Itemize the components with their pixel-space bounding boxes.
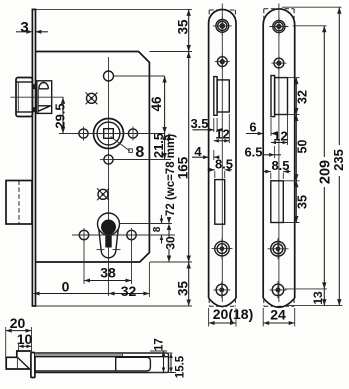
svg-text:165: 165 xyxy=(176,156,191,179)
middle plate centerline xyxy=(221,4,223,303)
right plate dashed square corners xyxy=(264,8,294,10)
deadbolt xyxy=(6,181,32,225)
middle faceplate outline xyxy=(209,10,236,299)
middle plate top screw xyxy=(216,20,229,33)
svg-text:13: 13 xyxy=(311,291,325,305)
dimension 32/50/35 stack xyxy=(288,77,300,79)
hole left of keyhole xyxy=(79,230,88,239)
svg-text:35: 35 xyxy=(176,281,191,297)
right plate deadbolt cutout xyxy=(271,181,284,223)
svg-text:35: 35 xyxy=(296,195,310,209)
svg-text:0: 0 xyxy=(62,279,70,295)
middle plate lower screw 1 xyxy=(215,241,230,256)
svg-text:20: 20 xyxy=(10,315,26,331)
dimension 29.5 xyxy=(62,97,64,133)
dimension 235 xyxy=(282,6,342,8)
svg-text:235: 235 xyxy=(331,149,346,171)
dimension 72 (wc=78 mm) xyxy=(168,134,170,137)
hole top xyxy=(104,71,114,81)
dimension 13 xyxy=(323,289,325,306)
dimension 209 xyxy=(293,25,327,27)
lock case body xyxy=(36,52,150,263)
right faceplate outline xyxy=(263,9,295,298)
latch bolt head xyxy=(16,78,32,117)
middle plate latch cutout xyxy=(214,77,217,116)
right plate top screw xyxy=(273,20,285,32)
wire extension lines xyxy=(36,8,193,10)
svg-text:12: 12 xyxy=(215,127,229,142)
right plate lower screw 1 xyxy=(271,242,286,257)
svg-text:32: 32 xyxy=(296,90,310,104)
screw symbol xyxy=(87,93,97,103)
svg-text:29.5: 29.5 xyxy=(52,103,67,128)
svg-text:24: 24 xyxy=(270,307,286,323)
dimension 17 (bottom view) xyxy=(150,350,167,352)
svg-text:10: 10 xyxy=(17,331,33,347)
svg-text:30: 30 xyxy=(163,236,177,250)
svg-text:20(18): 20(18) xyxy=(213,306,253,322)
right plate upper hole xyxy=(274,58,284,68)
svg-text:35: 35 xyxy=(175,19,190,35)
dimension 8 keyhole xyxy=(161,215,163,224)
svg-text:6: 6 xyxy=(249,120,256,135)
leader square 8 xyxy=(111,137,131,152)
dimension 30 xyxy=(167,224,171,231)
hole right of keyhole xyxy=(127,230,136,239)
svg-text:17: 17 xyxy=(154,338,166,351)
right plate centerline xyxy=(278,4,280,303)
faceplate bar (bottom view) xyxy=(31,353,35,378)
middle plate lower screw 2 xyxy=(216,284,227,295)
latch bolt tail xyxy=(37,81,52,114)
svg-text:8.5: 8.5 xyxy=(215,157,233,172)
latch shaft (bottom view) xyxy=(35,353,169,373)
svg-text:32: 32 xyxy=(121,283,137,299)
middle plate upper hole xyxy=(217,57,227,67)
right plate latch cutout xyxy=(271,76,275,117)
svg-text:50: 50 xyxy=(296,140,310,154)
svg-text:6.5: 6.5 xyxy=(244,145,262,160)
right plate lower screw 2 xyxy=(272,284,284,296)
svg-text:21.5: 21.5 xyxy=(151,133,166,158)
keyhole xyxy=(98,213,120,235)
middle plate deadbolt cutout xyxy=(215,180,225,225)
svg-text:3.5: 3.5 xyxy=(190,116,208,131)
svg-text:8: 8 xyxy=(135,144,144,161)
dimension 15.5 (bottom view) xyxy=(170,353,172,373)
middle plate dashed square corners xyxy=(209,9,235,11)
dimension 38 xyxy=(83,241,85,284)
hole below hub xyxy=(104,155,113,164)
dimension 0 / 32 xyxy=(148,262,150,297)
svg-text:38: 38 xyxy=(100,265,116,281)
latch bolt head (bottom view) xyxy=(6,351,31,369)
svg-text:15.5: 15.5 xyxy=(175,355,187,378)
svg-text:46: 46 xyxy=(149,96,164,112)
faceplate (side view) xyxy=(32,9,35,306)
hole right of hub xyxy=(128,129,137,138)
dimension line 35/165/35 xyxy=(188,9,190,306)
centerline xyxy=(108,57,110,296)
latch centerline xyxy=(10,96,63,98)
svg-text:72 (wc=78 mm): 72 (wc=78 mm) xyxy=(165,134,177,216)
hole left of hub xyxy=(79,129,88,138)
screw symbol xyxy=(98,189,108,199)
svg-text:8: 8 xyxy=(152,226,163,232)
dimension 46 / 21.5 xyxy=(164,76,166,160)
spindle follower hub xyxy=(94,119,124,149)
